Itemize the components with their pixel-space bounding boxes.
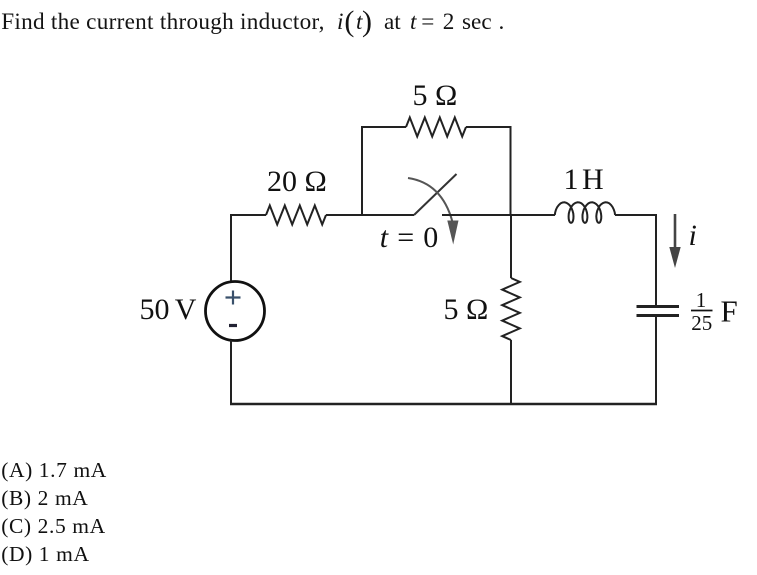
svg-text:t: t xyxy=(410,9,417,35)
wire: center vertical lower (5 ohm to bottom rail) xyxy=(510,340,512,405)
svg-text:5 Ω: 5 Ω xyxy=(444,293,489,326)
svg-text:(C) 2.5 mA: (C) 2.5 mA xyxy=(1,514,106,538)
label: + polarity xyxy=(226,291,241,305)
wire: middle rail segment from switch to inductor xyxy=(442,214,555,216)
wire: top branch top-right segment xyxy=(466,126,512,128)
svg-text:sec: sec xyxy=(462,9,492,35)
inductor L1 1H coil xyxy=(555,202,615,223)
wire: middle rail segment from 20 ohm to switch gap xyxy=(326,214,414,216)
svg-text:F: F xyxy=(721,293,738,328)
wire: top branch left vertical xyxy=(361,127,363,215)
svg-text:=: = xyxy=(421,9,434,35)
svg-text:i: i xyxy=(337,9,343,35)
svg-text:2: 2 xyxy=(443,9,455,35)
resistor R1 20 ohm zigzag xyxy=(266,206,326,225)
svg-text:Find the current through induc: Find the current through inductor, xyxy=(1,9,325,35)
label: - polarity xyxy=(229,324,237,327)
svg-text:25: 25 xyxy=(691,311,712,335)
resistor R3 5 ohm vertical zigzag xyxy=(502,278,520,340)
resistor R2 5 ohm top zigzag xyxy=(406,118,466,137)
wire: top branch top-left segment xyxy=(361,126,406,128)
svg-text:at: at xyxy=(384,9,401,35)
capacitor C1 bottom plate xyxy=(637,314,680,317)
switch motion arc xyxy=(408,178,453,222)
svg-text:(: ( xyxy=(344,5,354,38)
wire: center vertical upper (middle rail to 5 ohm) xyxy=(510,214,512,278)
wire: top branch right vertical down to middle rail xyxy=(510,126,512,215)
wire: middle rail from inductor to right corner xyxy=(615,214,657,216)
wire: bottom rail xyxy=(230,403,657,405)
svg-text:20 Ω: 20 Ω xyxy=(267,165,327,198)
capacitor C1 top plate xyxy=(637,305,680,308)
svg-text:5 Ω: 5 Ω xyxy=(413,79,458,112)
switch motion arrowhead xyxy=(447,221,458,245)
wire: right vertical lower (capacitor to bottom rail) xyxy=(655,317,657,405)
svg-text:i: i xyxy=(689,219,697,252)
wire: left vertical lower (source bottom to bottom rail) xyxy=(230,340,232,404)
voltage source V1 50V circle xyxy=(206,282,265,341)
svg-text:(D) 1 mA: (D) 1 mA xyxy=(1,542,89,566)
title: Find the current through inductor, i(t) at t = 2 sec. xyxy=(1,5,504,38)
wire: middle rail left segment xyxy=(230,214,266,216)
svg-text:V: V xyxy=(175,293,197,326)
svg-text:(A) 1.7 mA: (A) 1.7 mA xyxy=(1,458,107,482)
svg-text:(B) 2 mA: (B) 2 mA xyxy=(1,486,88,510)
svg-text:t = 0: t = 0 xyxy=(380,221,439,254)
current arrow i xyxy=(669,214,680,268)
svg-text:1: 1 xyxy=(696,288,707,312)
wire: right vertical upper (to capacitor top plate) xyxy=(655,214,657,305)
switch blade SW1 (t=0) xyxy=(414,174,457,215)
svg-text:50: 50 xyxy=(140,293,170,326)
svg-text:.: . xyxy=(499,9,505,35)
svg-text:): ) xyxy=(362,5,372,38)
wire: left vertical upper (middle rail to source top) xyxy=(230,214,232,282)
label: 1/25 F fraction xyxy=(691,288,738,335)
svg-text:H: H xyxy=(582,163,604,196)
svg-text:1: 1 xyxy=(564,163,579,196)
